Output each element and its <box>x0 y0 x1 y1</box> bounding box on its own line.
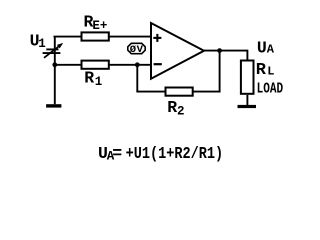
wire: feedback vertical up to output node <box>219 51 221 93</box>
label RL <box>256 61 275 80</box>
source U1 (variable voltage source: two bars + arrow) <box>43 43 64 58</box>
svg-text:=: = <box>112 144 122 163</box>
svg-text:A: A <box>267 43 275 57</box>
wire: R2 to output corner <box>193 91 221 93</box>
label RE+ <box>84 12 108 33</box>
svg-text:1: 1 <box>95 75 103 89</box>
svg-text:U: U <box>257 39 267 58</box>
resistor R1 <box>82 61 109 69</box>
svg-text:R: R <box>167 98 177 117</box>
wire: RL bottom stub <box>246 95 248 105</box>
svg-text:L: L <box>267 65 274 79</box>
svg-text:ØV: ØV <box>130 44 144 56</box>
wire: op-amp output to the right <box>204 50 247 52</box>
junction output node <box>217 48 222 53</box>
svg-text:LOAD: LOAD <box>257 81 284 97</box>
junction node A <box>52 62 57 67</box>
resistor R2 <box>166 88 193 96</box>
wire: left vertical rail from top corner through source U1 down to ground <box>54 37 56 105</box>
svg-text:2: 2 <box>177 104 185 118</box>
svg-text:R: R <box>256 61 267 80</box>
svg-text:E+: E+ <box>92 19 107 33</box>
wire: corner down into RL <box>246 50 248 60</box>
wire: feedback horizontal to R2 <box>136 91 165 93</box>
resistor RL (vertical) <box>241 61 254 94</box>
label UA <box>257 39 275 58</box>
label R2 <box>167 98 184 118</box>
svg-text:R: R <box>84 69 94 88</box>
op-amp + input marker <box>153 34 161 42</box>
svg-text:1: 1 <box>38 37 46 51</box>
svg-text:+U1(1+R2/R1): +U1(1+R2/R1) <box>126 144 224 163</box>
label R1 <box>84 69 102 89</box>
wire: R1 to op-amp - input <box>109 64 151 66</box>
node 0V octagon callout <box>128 43 145 56</box>
op-amp - input marker <box>154 63 162 65</box>
wire: feedback vertical down from node B <box>136 65 138 92</box>
wire: RE+ to op-amp + input <box>109 36 151 38</box>
label U1 <box>30 32 46 52</box>
formula UA = +U1(1+R2/R1) <box>98 144 223 164</box>
ground (right, under RL) <box>238 105 257 108</box>
ground (left, under source) <box>46 104 61 107</box>
op-amp U1 triangle <box>151 23 204 79</box>
junction node B (inverting input) <box>135 62 140 67</box>
wire: node A to resistor R1 <box>54 64 80 66</box>
resistor RE+ <box>82 32 109 40</box>
wire: top horizontal from corner to resistor RE+ <box>54 36 81 38</box>
